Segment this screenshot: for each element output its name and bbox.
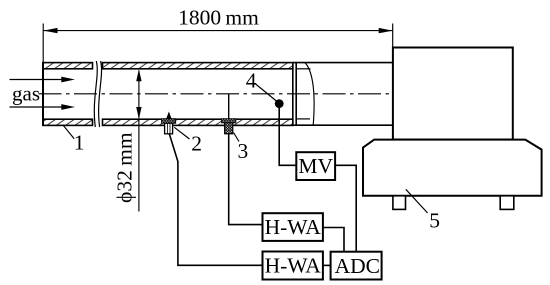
fan housing (component 5) bbox=[393, 48, 513, 140]
svg-text:MV: MV bbox=[298, 154, 333, 178]
sensor 2 stem bbox=[165, 123, 173, 134]
pipe break white gap bbox=[94, 61, 101, 128]
box H-WA upper bbox=[263, 213, 323, 241]
svg-text:2: 2 bbox=[191, 132, 202, 156]
sensor 3 stem (knurled) bbox=[225, 123, 233, 134]
sensor 2 flange (knurled) bbox=[162, 119, 176, 123]
label 4 leader bbox=[256, 84, 277, 102]
duct break wavy line bbox=[305, 63, 314, 126]
duct inner top stub bbox=[296, 68, 310, 70]
pipe bottom wall hatched segment A bbox=[43, 119, 93, 125]
label 2 leader bbox=[174, 127, 189, 139]
wire sensor2 to lower H-WA bbox=[169, 134, 262, 265]
label 5 leader bbox=[406, 189, 428, 213]
pipe top wall hatched segment B bbox=[103, 63, 293, 69]
centerline (dash-dot axis) bbox=[39, 93, 398, 95]
wire upper H-WA to ADC bbox=[323, 228, 344, 252]
svg-text:ADC: ADC bbox=[335, 254, 380, 278]
label 3 leader bbox=[234, 133, 240, 142]
svg-text:4: 4 bbox=[246, 69, 257, 93]
svg-text:H-WA: H-WA bbox=[265, 254, 322, 278]
pipe left end line bbox=[42, 62, 44, 126]
wire sensor3 to upper H-WA bbox=[229, 134, 263, 225]
label 1 leader bbox=[63, 125, 74, 139]
dimension arrowhead right bbox=[379, 28, 393, 33]
gas flow arrow upper bbox=[10, 77, 76, 83]
wire sensor4 to MV bbox=[279, 104, 296, 166]
fan foot left bbox=[393, 196, 406, 210]
fan base bbox=[363, 140, 542, 196]
svg-text:5: 5 bbox=[429, 208, 440, 232]
duct bottom line to fan bbox=[293, 124, 393, 126]
duct top line to fan bbox=[293, 62, 393, 64]
svg-text:H-WA: H-WA bbox=[265, 215, 322, 239]
pipe break curve right bbox=[99, 61, 102, 127]
svg-text:1800 mm: 1800 mm bbox=[178, 5, 259, 29]
pipe break curve left bbox=[94, 61, 97, 127]
pipe right end line 1 bbox=[292, 62, 294, 126]
sensor 3 flange (knurled) bbox=[222, 119, 236, 123]
sensor 4 dot bbox=[275, 99, 284, 108]
dimension line 1800 mm bbox=[43, 24, 393, 63]
box MV bbox=[296, 152, 335, 180]
sensor 2 probe arrow bbox=[166, 112, 171, 119]
duct inner bottom stub bbox=[296, 118, 310, 120]
svg-text:ϕ32 mm: ϕ32 mm bbox=[112, 132, 136, 203]
gas flow arrow lower bbox=[10, 104, 76, 110]
pipe bottom wall hatched segment B bbox=[103, 119, 293, 125]
pipe top wall hatched segment A bbox=[43, 63, 93, 69]
sensor 3 probe bbox=[228, 94, 230, 119]
dimension arrowhead left bbox=[44, 28, 58, 33]
phi32 dimension arrow bbox=[136, 69, 141, 211]
svg-text:gas: gas bbox=[12, 81, 40, 105]
box H-WA lower bbox=[263, 252, 323, 280]
wire lower H-WA to ADC bbox=[323, 264, 331, 266]
sensor 2 stem inner lines bbox=[166, 123, 168, 134]
svg-text:1: 1 bbox=[74, 131, 85, 155]
wire MV to ADC bbox=[335, 165, 356, 251]
fan foot right bbox=[500, 196, 514, 210]
pipe right end line 2 bbox=[295, 62, 297, 126]
box ADC bbox=[331, 252, 382, 280]
svg-text:3: 3 bbox=[238, 139, 249, 163]
